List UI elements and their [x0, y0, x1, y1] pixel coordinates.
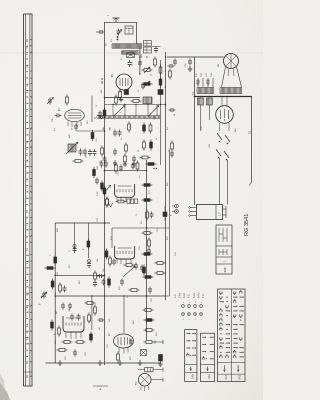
capacitor C25: [68, 303, 72, 310]
resistor R14: [125, 143, 128, 154]
resistor R11: [149, 123, 152, 134]
resistor R37: [143, 276, 154, 279]
wire AF bus: [55, 295, 166, 297]
label osc extra: [120, 112, 158, 152]
label A: [93, 386, 108, 390]
svg-text:C2: C2: [138, 90, 140, 92]
wire box top line: [112, 227, 169, 229]
svg-text:2-Aa: 2-Aa: [178, 292, 181, 298]
ground g6: [113, 160, 117, 165]
switch table SK1 SK3: [218, 289, 246, 381]
resistor R48: [85, 302, 96, 305]
cluster r31: [146, 210, 154, 221]
frame aerial box: [125, 26, 133, 34]
svg-text:600: 600: [101, 90, 103, 93]
junction dots osc: [54, 56, 195, 297]
dots j: [153, 168, 157, 169]
wire hb b: [209, 105, 211, 120]
resistor R42: [45, 267, 56, 270]
transformer T1 winding b: [220, 88, 242, 94]
switch contact SKb: [216, 149, 229, 160]
capacitor C6: [113, 130, 117, 137]
capacitor C11: [132, 156, 136, 163]
fuse holder: [138, 368, 163, 372]
resistor R28: [116, 200, 127, 203]
resistor R25: [101, 181, 104, 192]
svg-text:18: 18: [174, 114, 176, 116]
tube B1: [59, 107, 84, 127]
svg-text:1-C: 1-C: [174, 294, 177, 298]
resistor agc2: [142, 81, 153, 87]
label w2: [103, 126, 112, 130]
label 2k: [72, 128, 74, 130]
svg-text:SK3: SK3: [239, 374, 242, 379]
svg-text:47k: 47k: [111, 39, 113, 42]
wire mixer right: [91, 96, 93, 123]
trimmer arrow: [117, 29, 123, 36]
capacitor C59: [98, 111, 103, 119]
svg-text:3-Gr: 3-Gr: [183, 293, 186, 298]
trimmer C22: [41, 292, 47, 299]
wire antenna right: [136, 22, 138, 44]
resistor R45: [93, 271, 97, 288]
capacitor C32: [168, 64, 175, 68]
resistor R7: [115, 95, 118, 106]
cluster c18: [109, 256, 116, 267]
wire cathode line: [105, 97, 141, 99]
svg-text:100k: 100k: [154, 116, 156, 120]
capacitor C19b: [140, 265, 144, 272]
label b3l2: [101, 90, 103, 93]
parts list strip: [24, 14, 33, 386]
transformer T2 primary: [112, 44, 142, 48]
junction d2: [139, 56, 161, 105]
hatched block b: [207, 98, 213, 105]
svg-text:800: 800: [218, 64, 220, 67]
resistor R53: [62, 341, 73, 344]
svg-text:5-Fa: 5-Fa: [193, 292, 196, 298]
resistor R60: [144, 329, 155, 332]
wire sk drop a: [219, 158, 221, 205]
wire af-v bus: [146, 160, 148, 340]
resistor R4: [159, 65, 162, 76]
resistor R43: [51, 279, 54, 290]
wire right link: [166, 295, 170, 297]
svg-text:25n: 25n: [141, 221, 143, 224]
svg-text:6-PU: 6-PU: [197, 292, 200, 298]
capacitor C7: [118, 130, 122, 137]
resistor R10: [143, 123, 146, 134]
svg-text:2n: 2n: [127, 296, 129, 298]
volume arrow: [104, 185, 111, 193]
svg-text:4: 4: [120, 112, 122, 113]
dial lamp: [136, 373, 164, 391]
cluster r21: [115, 163, 123, 174]
ground g5: [138, 360, 142, 365]
capacitor C23: [97, 274, 104, 278]
ground g4: [98, 360, 102, 365]
resistor R12: [143, 140, 146, 151]
resistor R23: [146, 163, 157, 166]
resistor R46: [105, 249, 108, 260]
capacitor C9: [86, 149, 97, 158]
component B9: [163, 206, 167, 221]
capacitor C20: [120, 279, 124, 286]
antenna: [113, 18, 120, 22]
resistor R30: [142, 199, 153, 202]
wire grid line: [76, 130, 105, 132]
resistor R51: [54, 326, 60, 337]
wire center bus: [104, 22, 106, 365]
tuning arrow 2: [148, 106, 159, 117]
resistor R9: [128, 122, 131, 133]
wire sk drop b: [227, 160, 229, 205]
resistor R27: [106, 197, 109, 208]
wire osc links: [113, 105, 157, 116]
wire shield drop: [111, 228, 113, 248]
thermistor: [107, 203, 113, 207]
svg-text:L7: L7: [218, 212, 222, 216]
svg-text:10k: 10k: [97, 259, 99, 262]
capacitor C31: [173, 59, 177, 66]
capacitor C17: [147, 248, 151, 255]
resistor R13: [150, 140, 153, 151]
resistor R24: [93, 167, 96, 178]
capacitor C2: [128, 60, 135, 67]
node mark: [39, 303, 42, 305]
capacitor C40: [138, 56, 142, 66]
wire speaker feed: [167, 56, 224, 58]
resistor R41: [50, 254, 57, 266]
label RG 5541: [244, 214, 250, 236]
capacitor C14: [79, 149, 83, 156]
label T1: [191, 91, 195, 95]
resistor R54: [75, 341, 86, 344]
svg-text:2k: 2k: [156, 138, 158, 140]
resistor R40: [155, 262, 166, 275]
svg-text:C4: C4: [138, 150, 140, 152]
volume pot arrow: [123, 266, 135, 277]
svg-text:SK8: SK8: [223, 267, 227, 272]
resistor R36: [143, 265, 146, 276]
svg-text:B10: B10: [136, 382, 138, 385]
electrolytic C5: [158, 70, 167, 95]
wire out drop: [91, 296, 93, 330]
ground gb3: [119, 97, 123, 102]
svg-text:1n: 1n: [139, 176, 141, 178]
svg-text:2k: 2k: [72, 128, 74, 130]
resistor R33: [148, 238, 151, 249]
resistor R50: [88, 313, 91, 324]
ground g3: [58, 360, 62, 365]
capacitor C27: [70, 314, 81, 321]
capacitor C35: [169, 108, 177, 116]
scan fold line: [0, 52, 263, 54]
wire right twin bus: [169, 150, 171, 296]
tube B5: [216, 97, 234, 132]
label b3l: [101, 78, 104, 84]
transformer T1 winding a: [197, 88, 214, 94]
capacitor C28: [73, 350, 77, 357]
capacitor C58: [52, 114, 62, 123]
resistor R35: [124, 263, 139, 270]
resistor R58: [143, 309, 154, 312]
capacitor C41: [138, 83, 145, 93]
wire right edge drop: [249, 97, 251, 186]
resistor Rph: [83, 239, 90, 251]
resistor agc1: [142, 67, 153, 73]
capacitor C1: [96, 30, 105, 34]
svg-text:50k: 50k: [103, 269, 105, 272]
capacitor C16: [95, 178, 99, 185]
switch contact SKa: [217, 133, 230, 144]
wire mid-right bus: [165, 52, 167, 300]
resistor R61: [144, 340, 164, 344]
capacitor Cph: [69, 244, 77, 253]
contact boxes: [127, 199, 138, 204]
resistor R29: [142, 184, 153, 187]
resistor R57: [117, 352, 120, 363]
svg-text:1k: 1k: [96, 105, 98, 107]
label 20: [249, 131, 252, 134]
svg-text:C80: C80: [86, 155, 88, 158]
ground g7: [118, 360, 122, 365]
resistor R26: [103, 186, 106, 197]
svg-text:SK1: SK1: [225, 374, 228, 379]
wire left bus: [54, 223, 56, 363]
capacitor C4: [125, 90, 129, 95]
svg-text:4-U: 4-U: [187, 294, 190, 298]
switch table SK6: [185, 330, 197, 382]
capacitor C29: [129, 339, 133, 346]
wire phono drop 1: [74, 223, 76, 252]
phono jack: [87, 259, 91, 268]
wire phono drop 2: [87, 223, 89, 258]
capacitor C8: [113, 149, 117, 156]
capacitor C15: [83, 149, 87, 156]
resistor R63: [154, 57, 157, 68]
transformer T2 secondary: [122, 51, 140, 54]
label mix: [65, 95, 68, 106]
cluster r50: [170, 141, 174, 158]
capacitor C10: [100, 156, 107, 164]
capacitor C26: [98, 318, 105, 322]
wire AF mid line: [55, 274, 104, 276]
resistor R5: [159, 77, 162, 88]
cluster c84: [97, 161, 108, 171]
label 1: [108, 14, 110, 16]
svg-text:RG 3541: RG 3541: [244, 214, 250, 236]
resistor R56: [90, 332, 93, 343]
jack symbols: [171, 204, 179, 216]
svg-text:C19: C19: [132, 63, 134, 66]
capacitor C30: [185, 59, 192, 72]
resistor R17: [103, 108, 106, 119]
legend text: [174, 292, 205, 298]
corner smudge: [0, 373, 10, 400]
tube B8: [109, 333, 134, 354]
wire AF top line: [55, 222, 110, 224]
hatched block a: [198, 98, 204, 105]
svg-text:7-S: 7-S: [202, 294, 205, 298]
electrolytic block a: [143, 41, 151, 47]
IF can top: [143, 97, 152, 104]
resistor R19: [101, 146, 104, 157]
wire row104: [105, 104, 166, 106]
tuning arrow 1: [113, 106, 125, 117]
resistor R38: [102, 277, 111, 288]
electrolytic block b: [143, 47, 151, 53]
legend symbols: [181, 301, 203, 320]
wire t2r: [152, 46, 161, 53]
resistor R59: [144, 319, 155, 322]
svg-text:SK6: SK6: [191, 374, 194, 379]
resistor R18: [91, 130, 94, 141]
resistor R39: [129, 289, 140, 292]
resistor R49: [94, 305, 97, 316]
osc coil: [66, 142, 78, 154]
coil dots: [117, 36, 119, 40]
svg-text:50: 50: [95, 117, 97, 119]
wire det line: [105, 170, 147, 172]
svg-text:0,5M: 0,5M: [97, 191, 99, 196]
tube B6: [115, 246, 135, 264]
resistor R16: [140, 156, 151, 159]
cluster r22: [131, 161, 139, 172]
tube B4: [115, 184, 135, 202]
wire hb a: [200, 105, 202, 131]
wire out drop2: [123, 296, 125, 333]
speaker: [218, 54, 242, 88]
wire speaker drop: [194, 57, 196, 205]
switch table SK4: [200, 333, 214, 381]
coil L7: [197, 205, 223, 220]
osc winding: [97, 116, 160, 119]
value labels: [54, 39, 237, 360]
connector pins: [189, 207, 197, 217]
svg-text:C6: C6: [165, 86, 167, 88]
resistor R47: [106, 197, 109, 208]
resistor R15: [124, 154, 127, 165]
switch table SK8: [216, 225, 232, 274]
tube B3: [112, 73, 132, 94]
resistor R62: [169, 69, 172, 80]
capacitor C13: [74, 124, 78, 131]
resistor R34: [142, 253, 153, 256]
capacitor C24: [61, 303, 65, 310]
capacitor C33: [222, 206, 226, 218]
ground g6b: [123, 161, 136, 166]
trimmer C12: [47, 98, 54, 105]
electrolytic C45: [158, 355, 162, 367]
svg-text:5n: 5n: [121, 138, 123, 140]
fuse X box: [141, 350, 147, 356]
wire IF right bus: [160, 60, 162, 165]
wire T2 out: [139, 48, 141, 74]
label T2: [104, 43, 108, 47]
wire chassis bus: [46, 362, 161, 364]
wire antenna top: [105, 21, 137, 23]
resistor R52: [51, 320, 54, 331]
svg-text:C58: C58: [52, 119, 54, 122]
svg-text:1M: 1M: [99, 327, 101, 330]
crystal box: [127, 53, 135, 58]
resistor R8: [131, 100, 142, 103]
resistor R32: [142, 232, 153, 235]
resistor R55: [57, 349, 68, 352]
resistor R6: [119, 89, 122, 100]
primary taps: [196, 72, 213, 87]
wire heater bus: [194, 96, 252, 98]
capacitor C21: [148, 287, 152, 294]
label w1: [95, 117, 102, 119]
resistor R20: [73, 160, 84, 163]
svg-text:C3: C3: [130, 126, 132, 128]
cluster r44: [59, 283, 67, 294]
tube B7: [56, 311, 84, 339]
svg-text:5k: 5k: [165, 70, 167, 72]
svg-text:C60: C60: [185, 64, 187, 67]
svg-text:SK4: SK4: [208, 374, 211, 379]
svg-text:C84: C84: [97, 167, 99, 170]
